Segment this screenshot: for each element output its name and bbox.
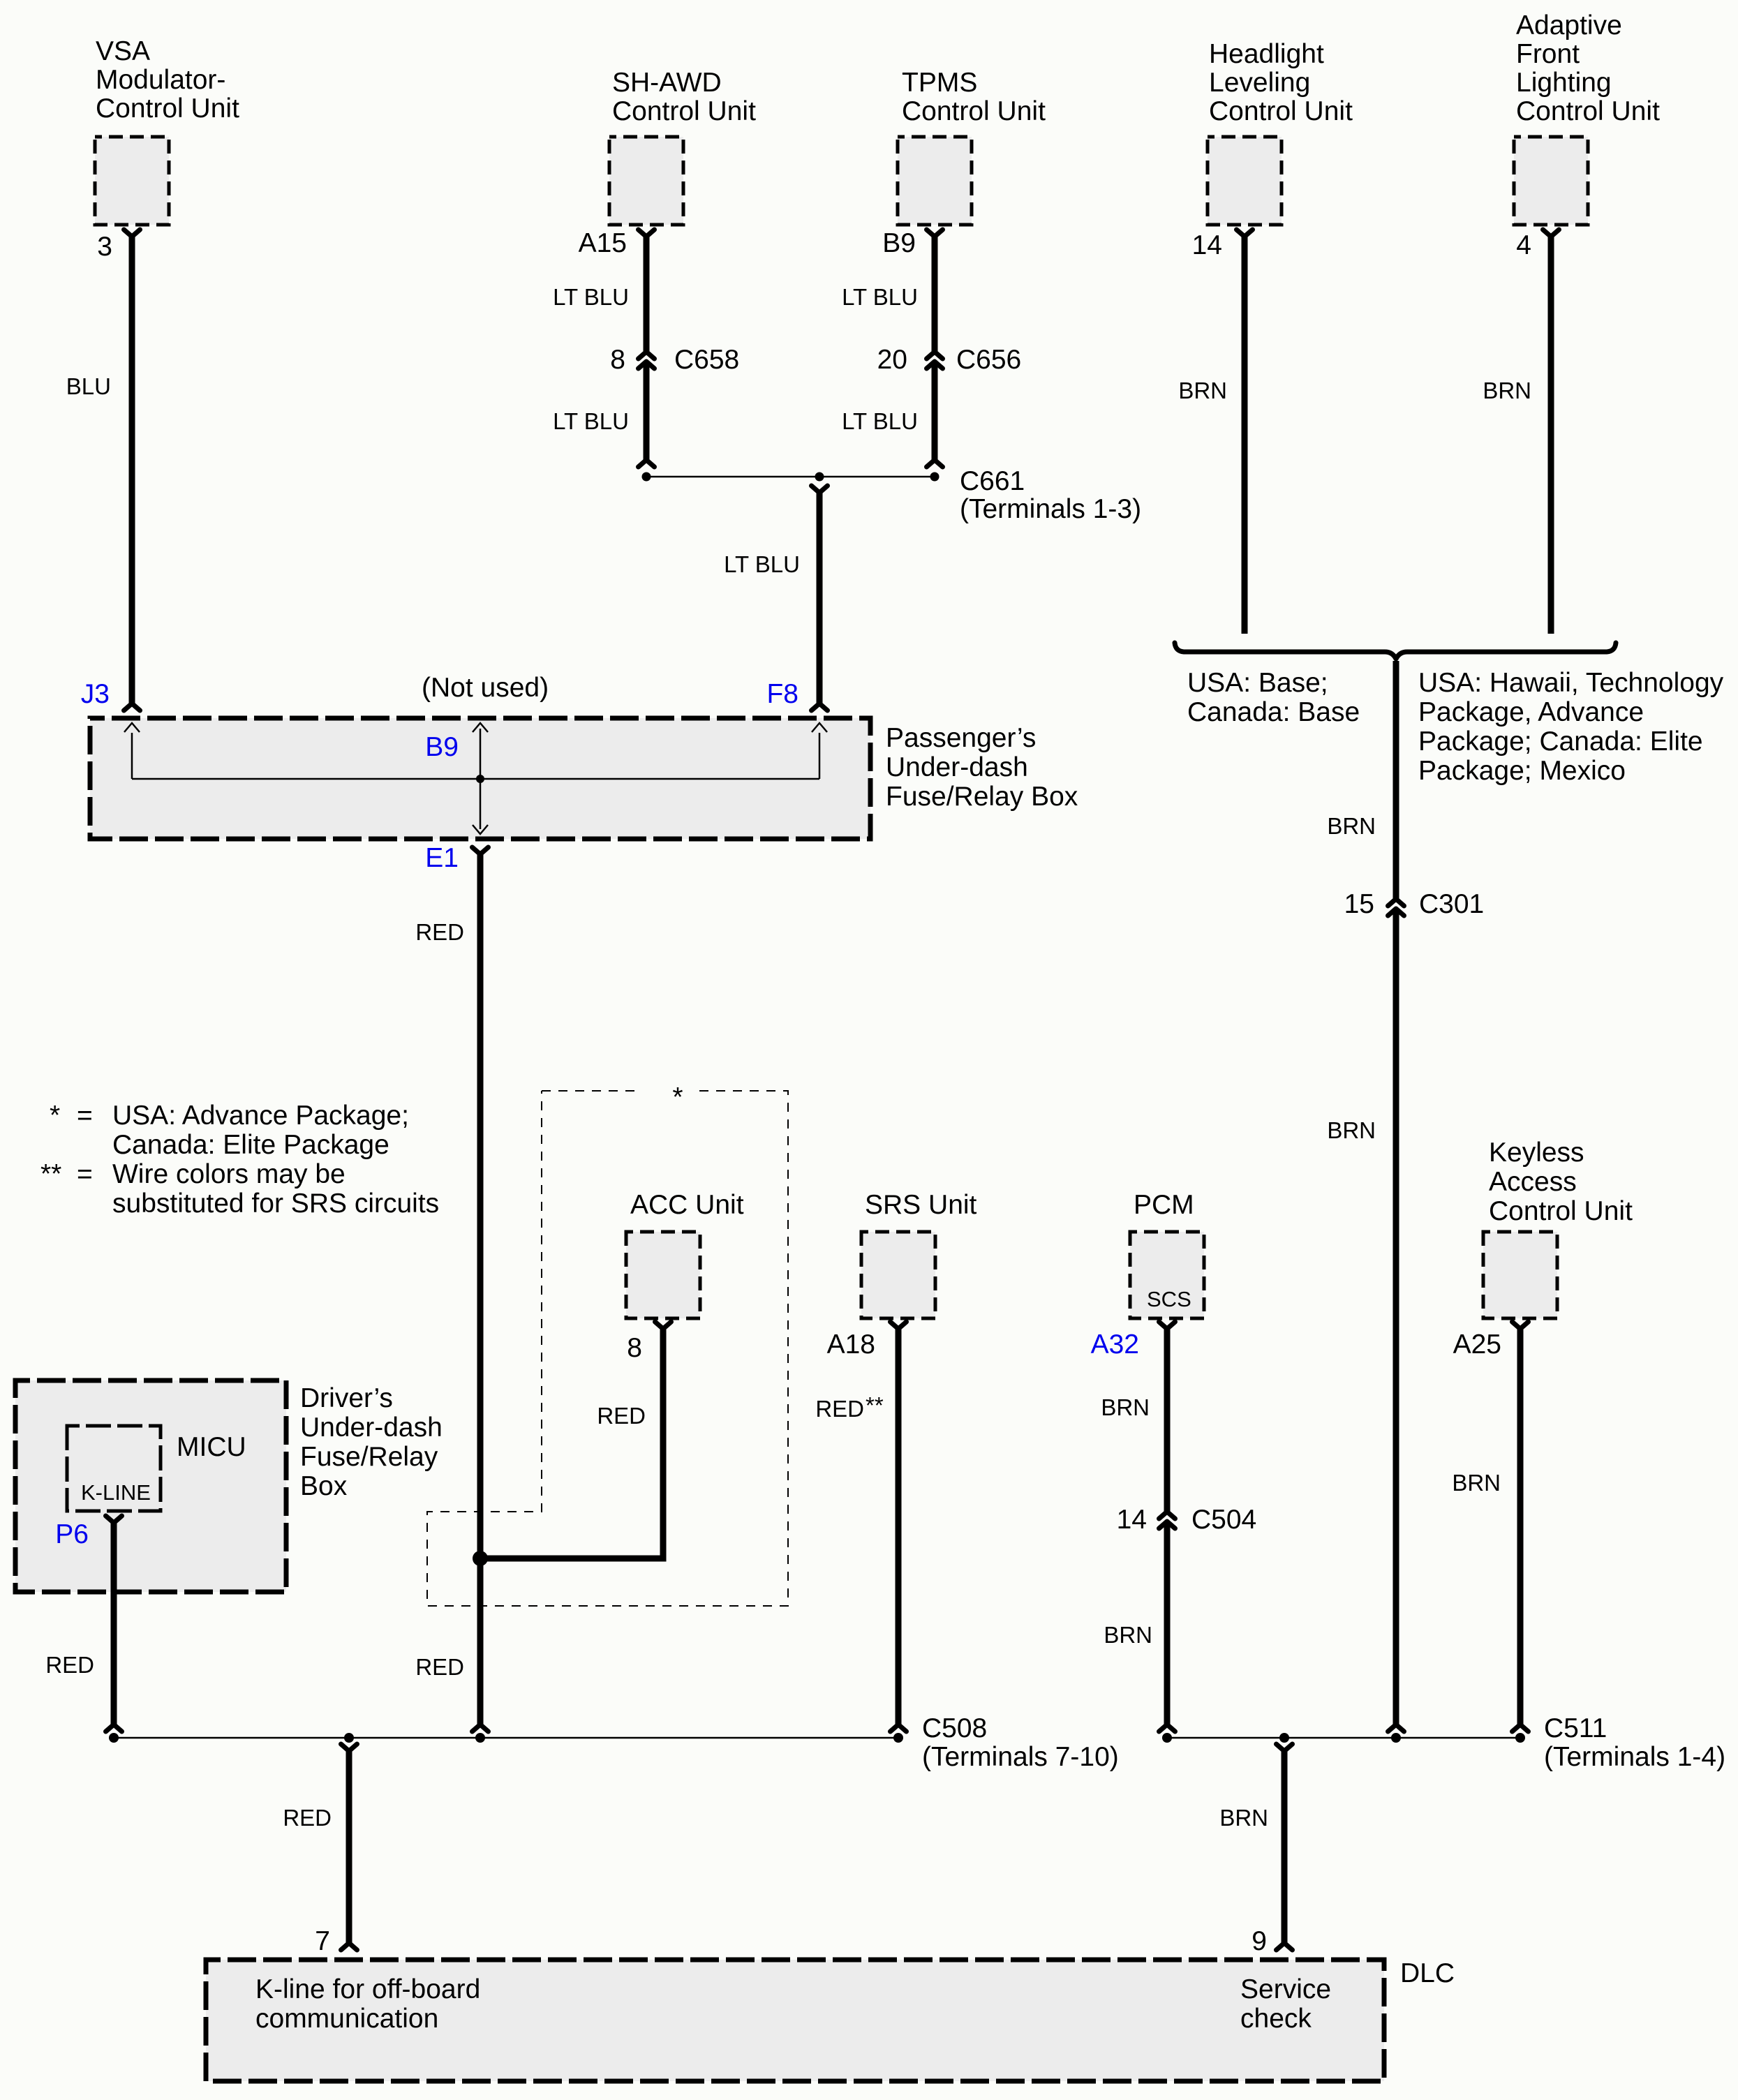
svg-text:*: *	[50, 1101, 60, 1131]
svg-text:Wire colors may be: Wire colors may be	[112, 1159, 346, 1189]
svg-text:communication: communication	[255, 2004, 438, 2034]
svg-text:E1: E1	[425, 843, 459, 873]
svg-text:Fuse/Relay Box: Fuse/Relay Box	[886, 782, 1078, 812]
svg-text:A15: A15	[579, 228, 627, 258]
svg-text:(Terminals 1-3): (Terminals 1-3)	[960, 494, 1141, 524]
svg-text:7: 7	[315, 1926, 330, 1956]
svg-text:BRN: BRN	[1178, 378, 1227, 403]
svg-text:C658: C658	[674, 345, 739, 375]
svg-text:PCM: PCM	[1134, 1190, 1194, 1220]
svg-text:(Terminals 1-4): (Terminals 1-4)	[1544, 1742, 1725, 1772]
svg-text:TPMS: TPMS	[902, 68, 977, 98]
svg-text:BRN: BRN	[1327, 1117, 1376, 1143]
svg-text:LT BLU: LT BLU	[842, 408, 918, 434]
svg-text:P6: P6	[55, 1519, 89, 1549]
svg-text:RED: RED	[415, 1654, 464, 1680]
svg-text:LT BLU: LT BLU	[553, 408, 629, 434]
svg-text:Headlight: Headlight	[1209, 39, 1324, 69]
svg-text:USA: Advance Package;: USA: Advance Package;	[112, 1101, 409, 1131]
svg-text:A25: A25	[1453, 1330, 1501, 1360]
svg-text:14: 14	[1117, 1505, 1147, 1535]
svg-text:20: 20	[877, 345, 907, 375]
svg-text:Fuse/Relay: Fuse/Relay	[300, 1442, 438, 1472]
svg-text:BRN: BRN	[1101, 1394, 1150, 1420]
svg-text:DLC: DLC	[1400, 1958, 1455, 1988]
svg-text:C301: C301	[1419, 889, 1484, 919]
svg-text:Passenger’s: Passenger’s	[886, 723, 1036, 753]
svg-text:RED: RED	[45, 1652, 94, 1678]
svg-text:Access: Access	[1489, 1167, 1577, 1197]
svg-text:B9: B9	[882, 228, 916, 258]
svg-text:(Not used): (Not used)	[422, 673, 549, 703]
svg-text:Package; Mexico: Package; Mexico	[1418, 756, 1626, 786]
svg-text:Under-dash: Under-dash	[300, 1413, 443, 1443]
svg-text:Control Unit: Control Unit	[1516, 96, 1660, 126]
svg-text:15: 15	[1344, 889, 1374, 919]
svg-text:Front: Front	[1516, 39, 1580, 69]
svg-text:USA: Base;: USA: Base;	[1187, 668, 1328, 698]
svg-text:Leveling: Leveling	[1209, 68, 1310, 98]
svg-text:Control Unit: Control Unit	[96, 94, 239, 124]
svg-text:Control Unit: Control Unit	[1489, 1196, 1633, 1226]
svg-text:F8: F8	[766, 679, 799, 709]
svg-text:Package, Advance: Package, Advance	[1418, 697, 1644, 727]
svg-text:4: 4	[1516, 230, 1531, 260]
svg-text:Keyless: Keyless	[1489, 1138, 1584, 1168]
svg-text:BRN: BRN	[1483, 378, 1531, 403]
svg-text:RED: RED	[597, 1403, 646, 1429]
svg-text:(Terminals 7-10): (Terminals 7-10)	[922, 1742, 1119, 1772]
svg-text:3: 3	[97, 232, 112, 262]
svg-text:Adaptive: Adaptive	[1516, 10, 1622, 40]
svg-text:LT BLU: LT BLU	[842, 284, 918, 310]
svg-text:BRN: BRN	[1104, 1622, 1152, 1648]
svg-text:SRS Unit: SRS Unit	[865, 1190, 977, 1220]
svg-text:MICU: MICU	[177, 1432, 246, 1462]
svg-text:Driver’s: Driver’s	[300, 1383, 393, 1413]
svg-text:C511: C511	[1544, 1713, 1607, 1743]
svg-text:=: =	[77, 1159, 93, 1189]
svg-text:RED: RED	[815, 1396, 864, 1422]
svg-text:check: check	[1240, 2004, 1312, 2034]
svg-text:SH-AWD: SH-AWD	[612, 68, 722, 98]
svg-text:VSA: VSA	[96, 36, 150, 66]
svg-text:Under-dash: Under-dash	[886, 752, 1028, 782]
svg-text:8: 8	[610, 345, 625, 375]
svg-text:C656: C656	[956, 345, 1021, 375]
svg-text:LT BLU: LT BLU	[724, 551, 800, 577]
svg-text:LT BLU: LT BLU	[553, 284, 629, 310]
svg-text:K-LINE: K-LINE	[81, 1480, 151, 1505]
svg-text:BRN: BRN	[1452, 1470, 1501, 1496]
svg-text:ACC Unit: ACC Unit	[630, 1190, 744, 1220]
svg-text:**: **	[866, 1392, 884, 1418]
svg-text:substituted for SRS circuits: substituted for SRS circuits	[112, 1189, 439, 1219]
svg-text:Control Unit: Control Unit	[1209, 96, 1353, 126]
svg-text:RED: RED	[415, 919, 464, 945]
svg-text:9: 9	[1251, 1926, 1267, 1956]
svg-text:Canada: Base: Canada: Base	[1187, 697, 1360, 727]
svg-text:Lighting: Lighting	[1516, 68, 1612, 98]
svg-text:BRN: BRN	[1219, 1805, 1268, 1831]
svg-text:Canada: Elite Package: Canada: Elite Package	[112, 1130, 389, 1160]
svg-text:C508: C508	[922, 1713, 987, 1743]
svg-text:=: =	[77, 1101, 93, 1131]
svg-text:SCS: SCS	[1147, 1287, 1191, 1311]
svg-text:**: **	[40, 1159, 61, 1189]
svg-text:*: *	[672, 1082, 683, 1112]
svg-text:Modulator-: Modulator-	[96, 65, 225, 95]
svg-text:C661: C661	[960, 466, 1025, 496]
svg-text:C504: C504	[1191, 1505, 1256, 1535]
svg-text:USA: Hawaii, Technology: USA: Hawaii, Technology	[1418, 668, 1724, 698]
svg-text:14: 14	[1192, 230, 1222, 260]
svg-text:BLU: BLU	[66, 373, 111, 399]
svg-text:A18: A18	[827, 1330, 875, 1360]
svg-text:A32: A32	[1091, 1330, 1139, 1360]
svg-text:Package; Canada: Elite: Package; Canada: Elite	[1418, 727, 1703, 757]
svg-text:8: 8	[627, 1333, 642, 1363]
svg-text:Box: Box	[300, 1471, 348, 1501]
svg-text:K-line for off-board: K-line for off-board	[255, 1974, 480, 2004]
svg-text:Control Unit: Control Unit	[612, 96, 756, 126]
svg-text:Service: Service	[1240, 1974, 1331, 2004]
svg-text:BRN: BRN	[1327, 813, 1376, 839]
svg-text:J3: J3	[81, 679, 110, 709]
svg-text:B9: B9	[425, 732, 459, 762]
svg-text:Control Unit: Control Unit	[902, 96, 1046, 126]
svg-text:RED: RED	[283, 1805, 332, 1831]
